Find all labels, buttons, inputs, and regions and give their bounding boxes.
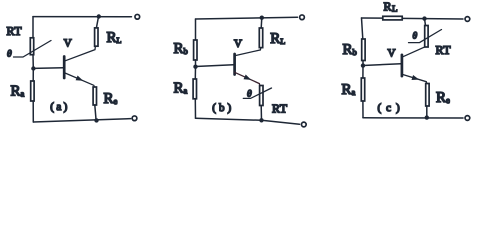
wire: RT to bottom rail (b) — [260, 106, 262, 121]
svg-text:Rb: Rb — [343, 42, 357, 58]
svg-text:Rb: Rb — [174, 41, 188, 57]
svg-text:V: V — [234, 38, 242, 50]
wire: Ra to bottom rail (a) — [32, 101, 34, 122]
junction: collector rail node (a) — [97, 14, 101, 18]
svg-text:RL: RL — [270, 31, 285, 47]
svg-text:(b): (b) — [212, 102, 234, 114]
transistor V emitter lead (b) — [235, 72, 260, 85]
wire: rail node to RT (c) — [425, 19, 426, 26]
wire: Rb to base node (c) — [362, 61, 364, 66]
wire: node to Ra (c) — [362, 66, 364, 78]
wire: Ra to bottom rail (b) — [194, 99, 196, 118]
junction: base node (c) — [361, 63, 365, 67]
wire: left rail upper (c) — [362, 18, 363, 39]
junction: base node (b) — [193, 65, 197, 69]
svg-text:RT: RT — [272, 102, 288, 116]
wire: rail to RL (b) — [260, 18, 263, 28]
junction: emitter rail node (a) — [94, 118, 98, 122]
wire: node to Ra (b) — [194, 67, 196, 79]
resistor Rb body (b) — [194, 40, 197, 60]
svg-text:(c): (c) — [378, 102, 405, 114]
resistor Re body (a) — [93, 87, 96, 105]
junction: emitter rail node (b) — [259, 118, 263, 122]
transistor V collector lead (a) — [64, 46, 95, 61]
wire: base (c) — [363, 64, 401, 66]
emitter arrow (c) — [412, 75, 420, 80]
svg-text:RL: RL — [384, 0, 398, 13]
wire: top rail (b) — [196, 17, 298, 19]
svg-text:RL: RL — [107, 30, 122, 46]
wire: left rail upper (b) — [195, 19, 197, 40]
junction: collector rail node (b) — [260, 16, 264, 20]
svg-text:Ra: Ra — [342, 82, 356, 98]
junction: RT rail node (c) — [422, 16, 426, 20]
transistor V emitter lead (a) — [64, 73, 94, 87]
svg-text:RT: RT — [436, 43, 452, 57]
resistor Ra body (a) — [31, 81, 34, 101]
transistor V emitter lead (c) — [402, 74, 427, 83]
resistor RL body (c) horizontal — [383, 16, 402, 20]
transistor V base bar (b) — [233, 54, 236, 75]
transistor V collector lead (c) — [402, 47, 425, 57]
svg-text:Ra: Ra — [174, 81, 188, 97]
wire: bottom rail (a) — [33, 119, 130, 122]
svg-text:θ: θ — [413, 32, 418, 42]
svg-text:Ra: Ra — [11, 84, 25, 100]
resistor Ra body (b) — [193, 79, 196, 99]
resistor RL body (b) — [259, 28, 262, 48]
resistor RT (thermistor) body (c) — [425, 26, 428, 48]
terminal: output bottom (c) — [465, 116, 470, 121]
wire: top rail left of RL (c) — [362, 17, 383, 19]
wire: rail to RL (a) — [96, 17, 98, 28]
wire: Ra to bottom rail (c) — [362, 101, 364, 118]
svg-text:θ: θ — [247, 90, 252, 100]
junction: base node (a) — [31, 66, 35, 70]
resistor Ra body (c) — [361, 78, 364, 101]
transistor V base bar (a) — [63, 57, 66, 79]
emitter arrow (b) — [244, 75, 252, 80]
wire: Re to bottom rail (a) — [95, 105, 96, 121]
junction: emitter rail node (c) — [425, 115, 429, 119]
terminal: output top (a) — [135, 14, 140, 19]
emitter arrow (a) — [76, 76, 84, 81]
wire: node to Ra (a) — [32, 69, 34, 82]
resistor RL body (a) — [95, 28, 98, 46]
thermistor arrow of RT (c) — [409, 30, 442, 43]
svg-text:(a): (a) — [50, 101, 69, 113]
transistor V collector lead (b) — [235, 48, 261, 56]
resistor Re body (c) — [426, 84, 429, 107]
transistor V base bar (c) — [401, 55, 404, 76]
wire: left rail upper (a) — [32, 17, 34, 38]
wire: top rail (a) — [33, 16, 132, 18]
wire: bottom rail (b) — [196, 118, 300, 124]
svg-text:V: V — [388, 47, 396, 59]
wire: RT to base node (a) — [32, 55, 34, 69]
wire: top rail right of RL (c) — [403, 17, 464, 20]
terminal: output top (b) — [300, 15, 305, 20]
resistor Rb body (c) — [362, 39, 365, 61]
wire: base (a) — [33, 67, 63, 70]
resistor RT (thermistor) body (a) — [30, 38, 33, 55]
thermistor arrow of RT (b) — [243, 88, 271, 98]
resistor RT (thermistor) body (b) — [260, 86, 263, 106]
svg-text:Re: Re — [436, 90, 450, 106]
svg-text:V: V — [64, 37, 72, 49]
terminal: output bottom (b) — [301, 122, 306, 127]
svg-text:θ: θ — [7, 50, 12, 60]
terminal: output bottom (a) — [132, 116, 137, 121]
wire: base (b) — [196, 65, 234, 67]
svg-text:RT: RT — [7, 24, 23, 38]
terminal: output top (c) — [465, 17, 470, 22]
wire: bottom rail (c) — [363, 117, 463, 119]
svg-text:Re: Re — [104, 91, 118, 107]
wire: Rb to base node (b) — [195, 60, 197, 67]
thermistor arrow of RT (a) — [14, 41, 52, 58]
wire: Re to bottom rail (c) — [426, 106, 428, 118]
